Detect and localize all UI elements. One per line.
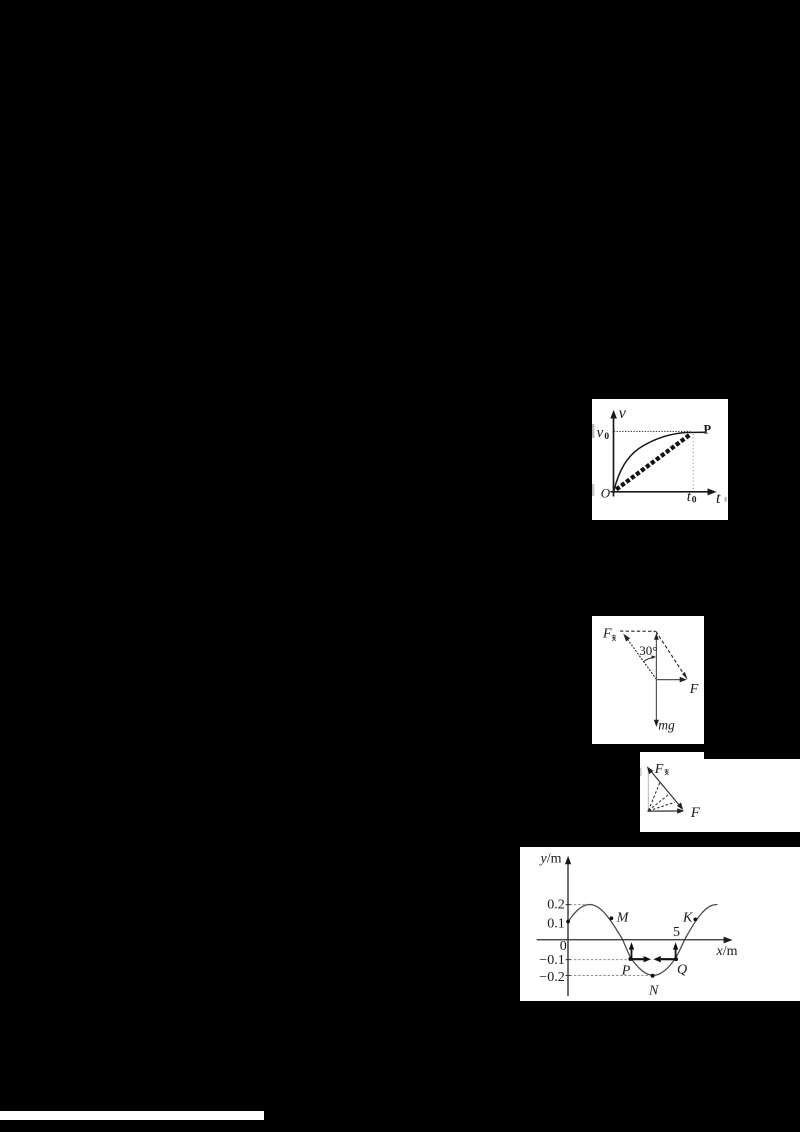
dotted horizontal guide at v0 bbox=[614, 430, 691, 432]
svg-text:F: F bbox=[654, 762, 664, 777]
left-edge gray artifact bbox=[640, 768, 642, 776]
F支 slant vector with arrowheads both ends bbox=[650, 770, 682, 809]
svg-text:x/m: x/m bbox=[716, 944, 738, 959]
svg-text:mg: mg bbox=[658, 718, 675, 733]
svg-text:Q: Q bbox=[677, 963, 687, 978]
svg-text:M: M bbox=[616, 910, 630, 925]
dashed guide at -0.2 bbox=[566, 975, 650, 977]
dot P bbox=[628, 957, 632, 961]
dot at 0.1 on axis bbox=[566, 920, 570, 924]
left-edge gray artifact marks bbox=[592, 424, 594, 438]
svg-text:N: N bbox=[648, 984, 659, 999]
svg-text:0: 0 bbox=[692, 496, 697, 506]
bold left arrow from Q bbox=[661, 958, 676, 960]
svg-text:O: O bbox=[601, 486, 611, 501]
dashed fan line 3 bbox=[649, 802, 675, 810]
dashed fan line 2 bbox=[649, 794, 670, 810]
wave curve bbox=[568, 905, 718, 976]
black notch over panel top-right bbox=[704, 752, 800, 759]
bottom-left white bar bbox=[0, 1111, 264, 1120]
figure 3: minimum-force triangle white panel bbox=[640, 752, 800, 833]
svg-text:0: 0 bbox=[604, 432, 609, 442]
svg-text:30°: 30° bbox=[639, 643, 657, 658]
dashed fan line 1 bbox=[649, 781, 661, 810]
figure 1: v-t graph white panel bbox=[592, 399, 728, 520]
svg-text:−0.1: −0.1 bbox=[539, 953, 564, 968]
dashed guide at -0.1 bbox=[566, 959, 629, 961]
dot M bbox=[610, 916, 614, 920]
svg-text:K: K bbox=[682, 910, 693, 925]
dashed guide at 0.2 bbox=[566, 904, 585, 906]
weight mg line with down arrowhead bbox=[655, 680, 657, 724]
svg-text:0.1: 0.1 bbox=[547, 916, 565, 931]
svg-text:0: 0 bbox=[560, 939, 567, 954]
dot N bbox=[651, 974, 655, 978]
horizontal force F with arrowhead bbox=[647, 810, 681, 812]
horizontal force F line with arrowhead bbox=[656, 679, 683, 681]
svg-text:P: P bbox=[704, 422, 712, 436]
bold up arrow at P bbox=[631, 947, 633, 959]
svg-text:y/m: y/m bbox=[539, 852, 562, 867]
tick 0.2 bbox=[566, 904, 571, 906]
x axis bbox=[537, 939, 728, 941]
vertical component line with up arrowhead bbox=[655, 636, 657, 680]
figure 4: wave y-x graph white panel bbox=[520, 847, 800, 1001]
dot K bbox=[693, 918, 697, 922]
dot Q bbox=[674, 957, 678, 961]
svg-text:5: 5 bbox=[673, 925, 680, 940]
svg-text:v: v bbox=[597, 425, 604, 441]
dashed resultant line toward F支 bbox=[626, 637, 657, 680]
y axis bbox=[567, 860, 569, 996]
dashed right side toward F tip bbox=[656, 631, 687, 678]
v-t curve saturating to v0 and flat segment to P bbox=[614, 432, 705, 492]
tick -0.2 bbox=[566, 975, 571, 977]
svg-text:F: F bbox=[690, 805, 701, 821]
30 degree arc with arrowhead bbox=[644, 658, 653, 662]
svg-text:t: t bbox=[716, 490, 721, 507]
vertical gray guide line bbox=[647, 769, 649, 812]
y axis v bbox=[613, 414, 615, 497]
thick dotted chord from O toward P bbox=[616, 434, 690, 489]
arrowhead of F支 bbox=[623, 634, 630, 642]
svg-text:F: F bbox=[689, 682, 699, 697]
svg-text:F: F bbox=[602, 626, 612, 641]
x axis t bbox=[611, 491, 712, 493]
bold right arrow from P bbox=[631, 958, 644, 960]
figure 2: force parallelogram white panel bbox=[592, 616, 704, 744]
dashed top side of parallelogram bbox=[620, 630, 656, 632]
bold up arrow at Q bbox=[675, 947, 677, 959]
svg-text:v: v bbox=[619, 405, 627, 422]
tick -0.1 bbox=[566, 959, 571, 961]
svg-text:0.2: 0.2 bbox=[547, 898, 565, 913]
dotted vertical guide at t0 bbox=[692, 434, 694, 492]
svg-text:−0.2: −0.2 bbox=[539, 970, 564, 985]
svg-text:P: P bbox=[621, 963, 631, 978]
